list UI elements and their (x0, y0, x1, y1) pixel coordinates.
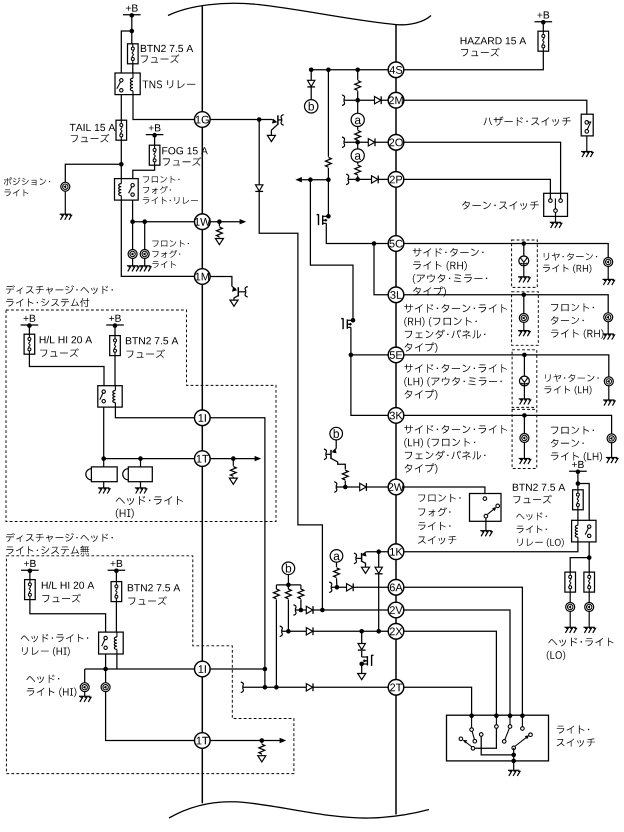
junction 2T from 1I (263, 685, 268, 690)
diode 1K-2X (375, 567, 383, 574)
label fuse katakana (126, 349, 164, 358)
resistor a2-2P (355, 165, 361, 175)
lamp rear turn RH (604, 258, 613, 267)
wire b branch down (310, 70, 312, 81)
node 1T (non-discharge) (195, 733, 211, 749)
wire node to a1 (357, 100, 359, 113)
wire +B down (577, 472, 579, 491)
node 5C (388, 236, 404, 252)
ground front turn LH (611, 443, 613, 458)
wire TAIL fuse down (120, 140, 122, 178)
power +B BTN2 fuse 2 (111, 560, 123, 567)
light switch pin stubs (471, 716, 473, 728)
light switch contact mid (479, 733, 483, 737)
dashed box non-discharge system (6, 556, 294, 774)
wire b-right to 2V row (300, 600, 302, 611)
diode b branch (307, 80, 315, 87)
turn switch contacts (549, 199, 553, 203)
junction fog lamp 2 (142, 219, 147, 224)
ground position light (60, 214, 72, 220)
label BTN2 7.5 A LO (513, 484, 565, 491)
node 1K (388, 544, 404, 560)
wire b down (287, 575, 289, 590)
fuse BTN2 7.5 A (2) (111, 582, 122, 602)
offpage arrow 1M transistor (230, 300, 238, 306)
light switch wire mid to node (481, 736, 514, 755)
fuse H/L HI 20 A (2) (25, 580, 36, 600)
relay HI2 switch contacts (104, 636, 107, 639)
ground hazard switch (581, 152, 593, 158)
wire 1T row (104, 458, 195, 460)
fuse TAIL 15 A (116, 120, 127, 140)
wire 2T row (244, 686, 389, 688)
wire +B down (28, 325, 30, 334)
wire resistor to 2O node (357, 141, 359, 142)
node 3K (388, 408, 404, 424)
resistor on 4S branch (326, 157, 332, 167)
transistor at 1G (272, 120, 276, 122)
label light switch (557, 725, 590, 733)
curl 2O row (342, 137, 345, 148)
junction position light branch (119, 162, 124, 167)
relay TNS box (115, 73, 140, 95)
wire resistor to junction (327, 168, 329, 180)
mosfet 2 (5E driver) (351, 318, 356, 323)
label BTN2 7.5 A (141, 45, 193, 52)
wire headlamp2 to 1T row (106, 692, 195, 741)
wire left corner to headlamp 1 (84, 669, 86, 683)
node a (light sw) (330, 550, 343, 563)
light switch contact left (459, 737, 463, 741)
wire 5C row to node (374, 243, 389, 245)
turn switch lever (554, 198, 556, 208)
wire bus 4S-2T vertical (395, 25, 397, 63)
wire link down to 2T row (264, 669, 266, 687)
offpage arrow 1T branch (232, 477, 234, 478)
wire stub headlight 2 (140, 459, 142, 467)
ground side turn LH mirror (523, 386, 525, 399)
arrow 1W offpage (240, 219, 247, 224)
curl 2W row (334, 482, 337, 493)
fuse BTN2 7.5 A (1) (110, 336, 121, 356)
relay front fog switch lever (129, 187, 132, 194)
junction 1T resistor (231, 456, 236, 461)
fog light switch box (470, 494, 502, 522)
light switch lever 2V (505, 728, 510, 740)
wire fog switch to 1W row (132, 200, 134, 250)
relay HI2 coil (116, 632, 118, 637)
diode 2W row (360, 483, 367, 491)
label TAIL 15 A (70, 124, 116, 131)
ground turn switch (550, 222, 562, 228)
diode 2X branch (358, 644, 366, 651)
label BTN2 7.5 A (126, 337, 178, 344)
junction fog lamp 1 (130, 219, 135, 224)
wire 1I right and down (210, 418, 265, 669)
wire 2M branch resistor (357, 70, 359, 80)
wire 2O to turn switch (403, 142, 560, 198)
label HAZARD 15 A (461, 37, 527, 44)
wire common to ground (513, 748, 515, 770)
wire resistor to 2M node (357, 91, 359, 100)
lamp rear turn LH (604, 377, 613, 386)
node 2T (388, 680, 404, 696)
junction 2W row (343, 485, 348, 490)
node 4S (388, 62, 404, 78)
dashed box discharge system (6, 310, 276, 522)
wire mosfet2 source to 5E row (351, 327, 389, 355)
label fuse katakana (128, 596, 167, 605)
offpage arrow 1W branch (218, 237, 220, 240)
wire FOG fuse to relay switch (133, 165, 155, 178)
dashed box side turn LH fender (512, 409, 537, 468)
junction on box edge (511, 759, 516, 764)
wire to resistor (232, 459, 234, 466)
wire branch to LO switch (578, 484, 589, 521)
power +B fog (149, 124, 161, 131)
junction headlamp 2 feed (103, 667, 108, 672)
resistor 2W branch (342, 470, 348, 480)
junction b branch (309, 68, 314, 73)
wire 1G branch down to diode (258, 120, 260, 185)
wire branch down to 3K (351, 355, 389, 416)
node 2M (388, 92, 404, 108)
wire hazard fuse to 4S (403, 51, 543, 70)
hazard switch contacts (585, 121, 589, 125)
wire +B down (114, 325, 116, 335)
wire to side turn lamp RH fender (523, 295, 525, 314)
lamp front fog 2 (140, 250, 149, 259)
wire branch to left LO fuse (570, 558, 589, 574)
label fuse katakana (42, 594, 81, 603)
wire fog lamp 2 stub (144, 222, 146, 250)
wire 1T right (210, 458, 258, 460)
label fuse katakana (513, 495, 552, 504)
junction light switch pin 2T (469, 713, 474, 718)
wire 1G right (210, 119, 273, 121)
junction 1W resistor (217, 219, 222, 224)
label front turn light RH (551, 303, 594, 311)
ground rear turn LH (608, 386, 610, 400)
label headlight LO (548, 638, 613, 647)
label headlight HI (116, 496, 183, 505)
lamp headlight LO right (585, 603, 594, 612)
wire 6A row (333, 586, 389, 588)
fog switch lever with arrow (488, 508, 496, 514)
wire to side turn lamp LH mirror (523, 355, 525, 376)
offpage arrow 2X branch (358, 674, 366, 680)
wire 2X branch to diode (361, 631, 363, 643)
light switch box (447, 715, 549, 761)
label side turn light RH mirror (413, 248, 484, 257)
lamp side turn LH fender (520, 434, 529, 443)
wire 2T to light switch (403, 687, 471, 715)
ground headlamp HI 1 (84, 692, 86, 697)
wire fuse to TNS coil (132, 64, 134, 73)
junction 2M branch (355, 68, 360, 73)
wire resistor to 6A row (336, 578, 338, 587)
junction 2P row (355, 177, 360, 182)
wire LO switch down (588, 542, 590, 573)
wire fuse to LO coil (577, 510, 579, 521)
relay front fog box (115, 179, 139, 201)
junction 2V from 1G path (320, 608, 325, 613)
fuse BTN2 7.5 A (LO) (573, 490, 584, 510)
label headlight relay HI (21, 634, 89, 642)
wire 2X to light switch (403, 631, 496, 715)
junction 1G branch (257, 117, 262, 122)
mosfet 1 (5C driver) (326, 214, 331, 219)
node b (turn flasher) (282, 562, 295, 575)
resistor 2M branch (355, 81, 361, 91)
wire 2O row (345, 141, 388, 143)
label fog light switch (418, 494, 461, 502)
harness break arc top (168, 3, 431, 25)
label rear turn light LH (545, 374, 598, 382)
wire TNS coil to 1G (133, 95, 195, 120)
resistor 1W branch (217, 227, 223, 237)
ground front turn RH (607, 322, 609, 334)
diode 2V row (306, 606, 313, 614)
wire 5C row right (403, 244, 608, 258)
lamp front turn LH (607, 434, 616, 443)
node 1W (195, 214, 211, 230)
wire diode down long path to 2V row (259, 192, 322, 610)
light switch pin contacts (470, 728, 474, 732)
fuse H/L HI 20 A (1) (24, 334, 35, 354)
junction light switch common (511, 753, 516, 758)
headlamp discharge 1 (86, 469, 92, 480)
hazard switch box (581, 114, 593, 136)
node 1G (195, 112, 211, 128)
node 6A (388, 580, 404, 596)
node 5E (388, 347, 404, 363)
relay headlight HI box (99, 632, 124, 654)
junction 6A row (335, 585, 340, 590)
curl 2M row (342, 95, 345, 106)
dashed box side turn LH mirror (512, 350, 537, 408)
power +B BTN2 fuse 1 (109, 315, 121, 322)
junction side turn LH mirror (522, 353, 527, 358)
junction light switch pin 6A (520, 713, 525, 718)
diode 6A row (347, 583, 354, 591)
label front turn light LH (551, 426, 594, 434)
curl 2T row (241, 682, 244, 693)
junction arrow row a (308, 177, 313, 182)
diode 2T row (306, 683, 313, 691)
junction side turn LH fender (522, 413, 527, 418)
light switch wire 2X common (475, 728, 496, 748)
wire +B down (29, 571, 31, 580)
relay TNS coil (132, 73, 134, 78)
junction 2M row (355, 98, 360, 103)
junction side turn RH (522, 241, 527, 246)
ground side turn LH fender (523, 442, 525, 458)
lamp side turn RH (mirror) (519, 256, 529, 266)
lamp front turn RH (604, 313, 613, 322)
wire relay switch to 1T row (103, 407, 105, 459)
wire mosfet3 down (361, 664, 363, 673)
relay front fog switch contacts (131, 184, 134, 187)
junction 2T resistor (274, 685, 279, 690)
wire resistor to 2P node (357, 176, 359, 180)
power +B hazard (537, 11, 549, 18)
arrow left offpage (295, 177, 302, 182)
label TNS relay (143, 80, 196, 88)
node b (fog sw driver) (330, 427, 343, 440)
fuse headlight LO left (565, 572, 576, 592)
ground side turn RH (523, 266, 525, 277)
label FOG 15 A (162, 147, 208, 154)
node 2P (388, 172, 404, 188)
wire 2W row (338, 486, 389, 488)
wire down to corner and mosfet 2 (310, 180, 353, 321)
label position light (4, 177, 50, 185)
relay LO switch lever (585, 528, 588, 535)
junction 1I-2T link (263, 667, 268, 672)
wire 1M right (210, 277, 232, 287)
node 2W (388, 479, 404, 495)
junction 2X resistor (286, 629, 291, 634)
fuse headlight LO right (584, 572, 595, 592)
wire hazard switch to ground (586, 136, 588, 151)
arrow 1T offpage (255, 456, 262, 461)
wire 1W row (133, 221, 195, 223)
wire 3K row right (403, 415, 611, 434)
diode 2O row (368, 138, 375, 146)
wire 1I right (210, 668, 265, 670)
dashed box side turn RH fender (512, 292, 539, 346)
ground side turn RH fender (523, 322, 525, 330)
ground headlamp 2 (140, 482, 142, 488)
resistor b right (298, 589, 304, 599)
diode 2X row (306, 627, 313, 635)
wire 5E row right (403, 355, 608, 377)
wire 2O node to a2 (357, 142, 359, 149)
relay headlight LO box (572, 520, 596, 542)
transistor fog sw driver (333, 449, 336, 452)
wire stub headlight 1 (103, 459, 105, 467)
curl 2V row (293, 605, 296, 616)
wire to position light (65, 164, 121, 182)
hazard switch lever (587, 122, 591, 130)
wire 3L row right (403, 295, 608, 313)
junction arrow row b (326, 177, 331, 182)
junction 2V resistor (299, 608, 304, 613)
lamp front fog 1 (128, 250, 137, 259)
relay HI switch contacts (102, 390, 105, 393)
relay discharge HI box (98, 386, 122, 407)
label turn switch (462, 201, 539, 210)
wire diode to node b (310, 87, 312, 99)
wire arrow row (302, 179, 329, 181)
junction resistor branch (326, 68, 331, 73)
label fuse katakana (141, 54, 180, 63)
ground LO lamp left (569, 611, 571, 627)
wire resistor to 2W row (344, 481, 346, 487)
label H/L HI 20 A (40, 336, 92, 344)
ground fog lamp 1 (132, 258, 134, 265)
label discharge headlight system without (6, 533, 113, 542)
lamp position light (61, 182, 70, 191)
ground light switch (508, 770, 520, 776)
dashed box side turn RH mirror (512, 240, 538, 287)
wire mosfet1 source to 5C row (326, 223, 374, 243)
wire relay coil down (116, 654, 118, 669)
lamp side turn LH (mirror) (520, 376, 530, 386)
wire to side turn lamp RH (523, 244, 525, 257)
junction 2O row (355, 140, 360, 145)
fog switch contacts (483, 497, 487, 501)
wire relay coil to 1I (115, 407, 194, 418)
relay TNS switch contacts (120, 79, 123, 82)
lamp side turn RH fender (519, 314, 528, 323)
wire +B to FOG fuse (154, 135, 156, 145)
resistor 1T branch (230, 467, 236, 477)
ground fog lamp 2 (144, 258, 146, 265)
wire 1K row (366, 551, 388, 553)
fuse FOG 15 A (149, 145, 160, 165)
wire 4S row left (311, 69, 388, 71)
ground LO lamp right (588, 611, 590, 627)
wire turn switch to ground (555, 212, 557, 222)
wire 2M to hazard switch (403, 100, 586, 114)
label side turn light RH fender (404, 304, 507, 313)
junction 2X diode from 1K (376, 629, 381, 634)
relay HI coil (114, 386, 116, 391)
light switch lever right with arrow (515, 737, 528, 747)
wire lamp to ground (64, 191, 66, 214)
label H/L HI 20 A (42, 581, 94, 589)
wire 2M row (345, 99, 388, 101)
offpage arrow 1G transistor (267, 135, 275, 141)
wire +B down (131, 16, 133, 44)
resistor 1T branch 2 (259, 744, 265, 754)
label fuse katakana (461, 48, 500, 57)
wire a2 to resistor (357, 162, 359, 164)
resistor 6A branch (334, 568, 340, 578)
wire BTN2 fuse to relay coil (114, 356, 116, 386)
junction 5E/3K branch (349, 353, 354, 358)
lamp headlight LO left (566, 603, 575, 612)
wire 1I row 2 (85, 668, 195, 670)
transistor 1M (232, 286, 236, 289)
label discharge headlight system with (6, 285, 113, 294)
junction LO lamps (587, 555, 592, 560)
junction +B branch (130, 29, 135, 34)
label hazard switch (484, 116, 571, 126)
wire to resistor (218, 222, 220, 227)
mosfet 3 (2X) (367, 655, 373, 666)
headlamp discharge 2 (123, 469, 129, 480)
wire branch down to 3L (374, 244, 389, 295)
ground rear turn RH (607, 266, 609, 279)
junction 2X branch down (359, 629, 364, 634)
ground fog switch (480, 531, 492, 537)
curl 6A row (329, 582, 332, 593)
junction side turn RH fender (522, 293, 527, 298)
label front fog light relay (143, 176, 180, 183)
wire fuse to lamp left (569, 592, 571, 603)
wire bus 1G-1T vertical (201, 6, 203, 113)
label rear turn light RH (544, 253, 597, 261)
wire 1W right (210, 221, 243, 223)
wire diode to 2X row (378, 574, 380, 631)
node a (lower) (351, 149, 364, 162)
resistor b middle (286, 589, 292, 599)
junction headlight 1 (101, 456, 106, 461)
junction 5C/3L branch (372, 241, 377, 246)
